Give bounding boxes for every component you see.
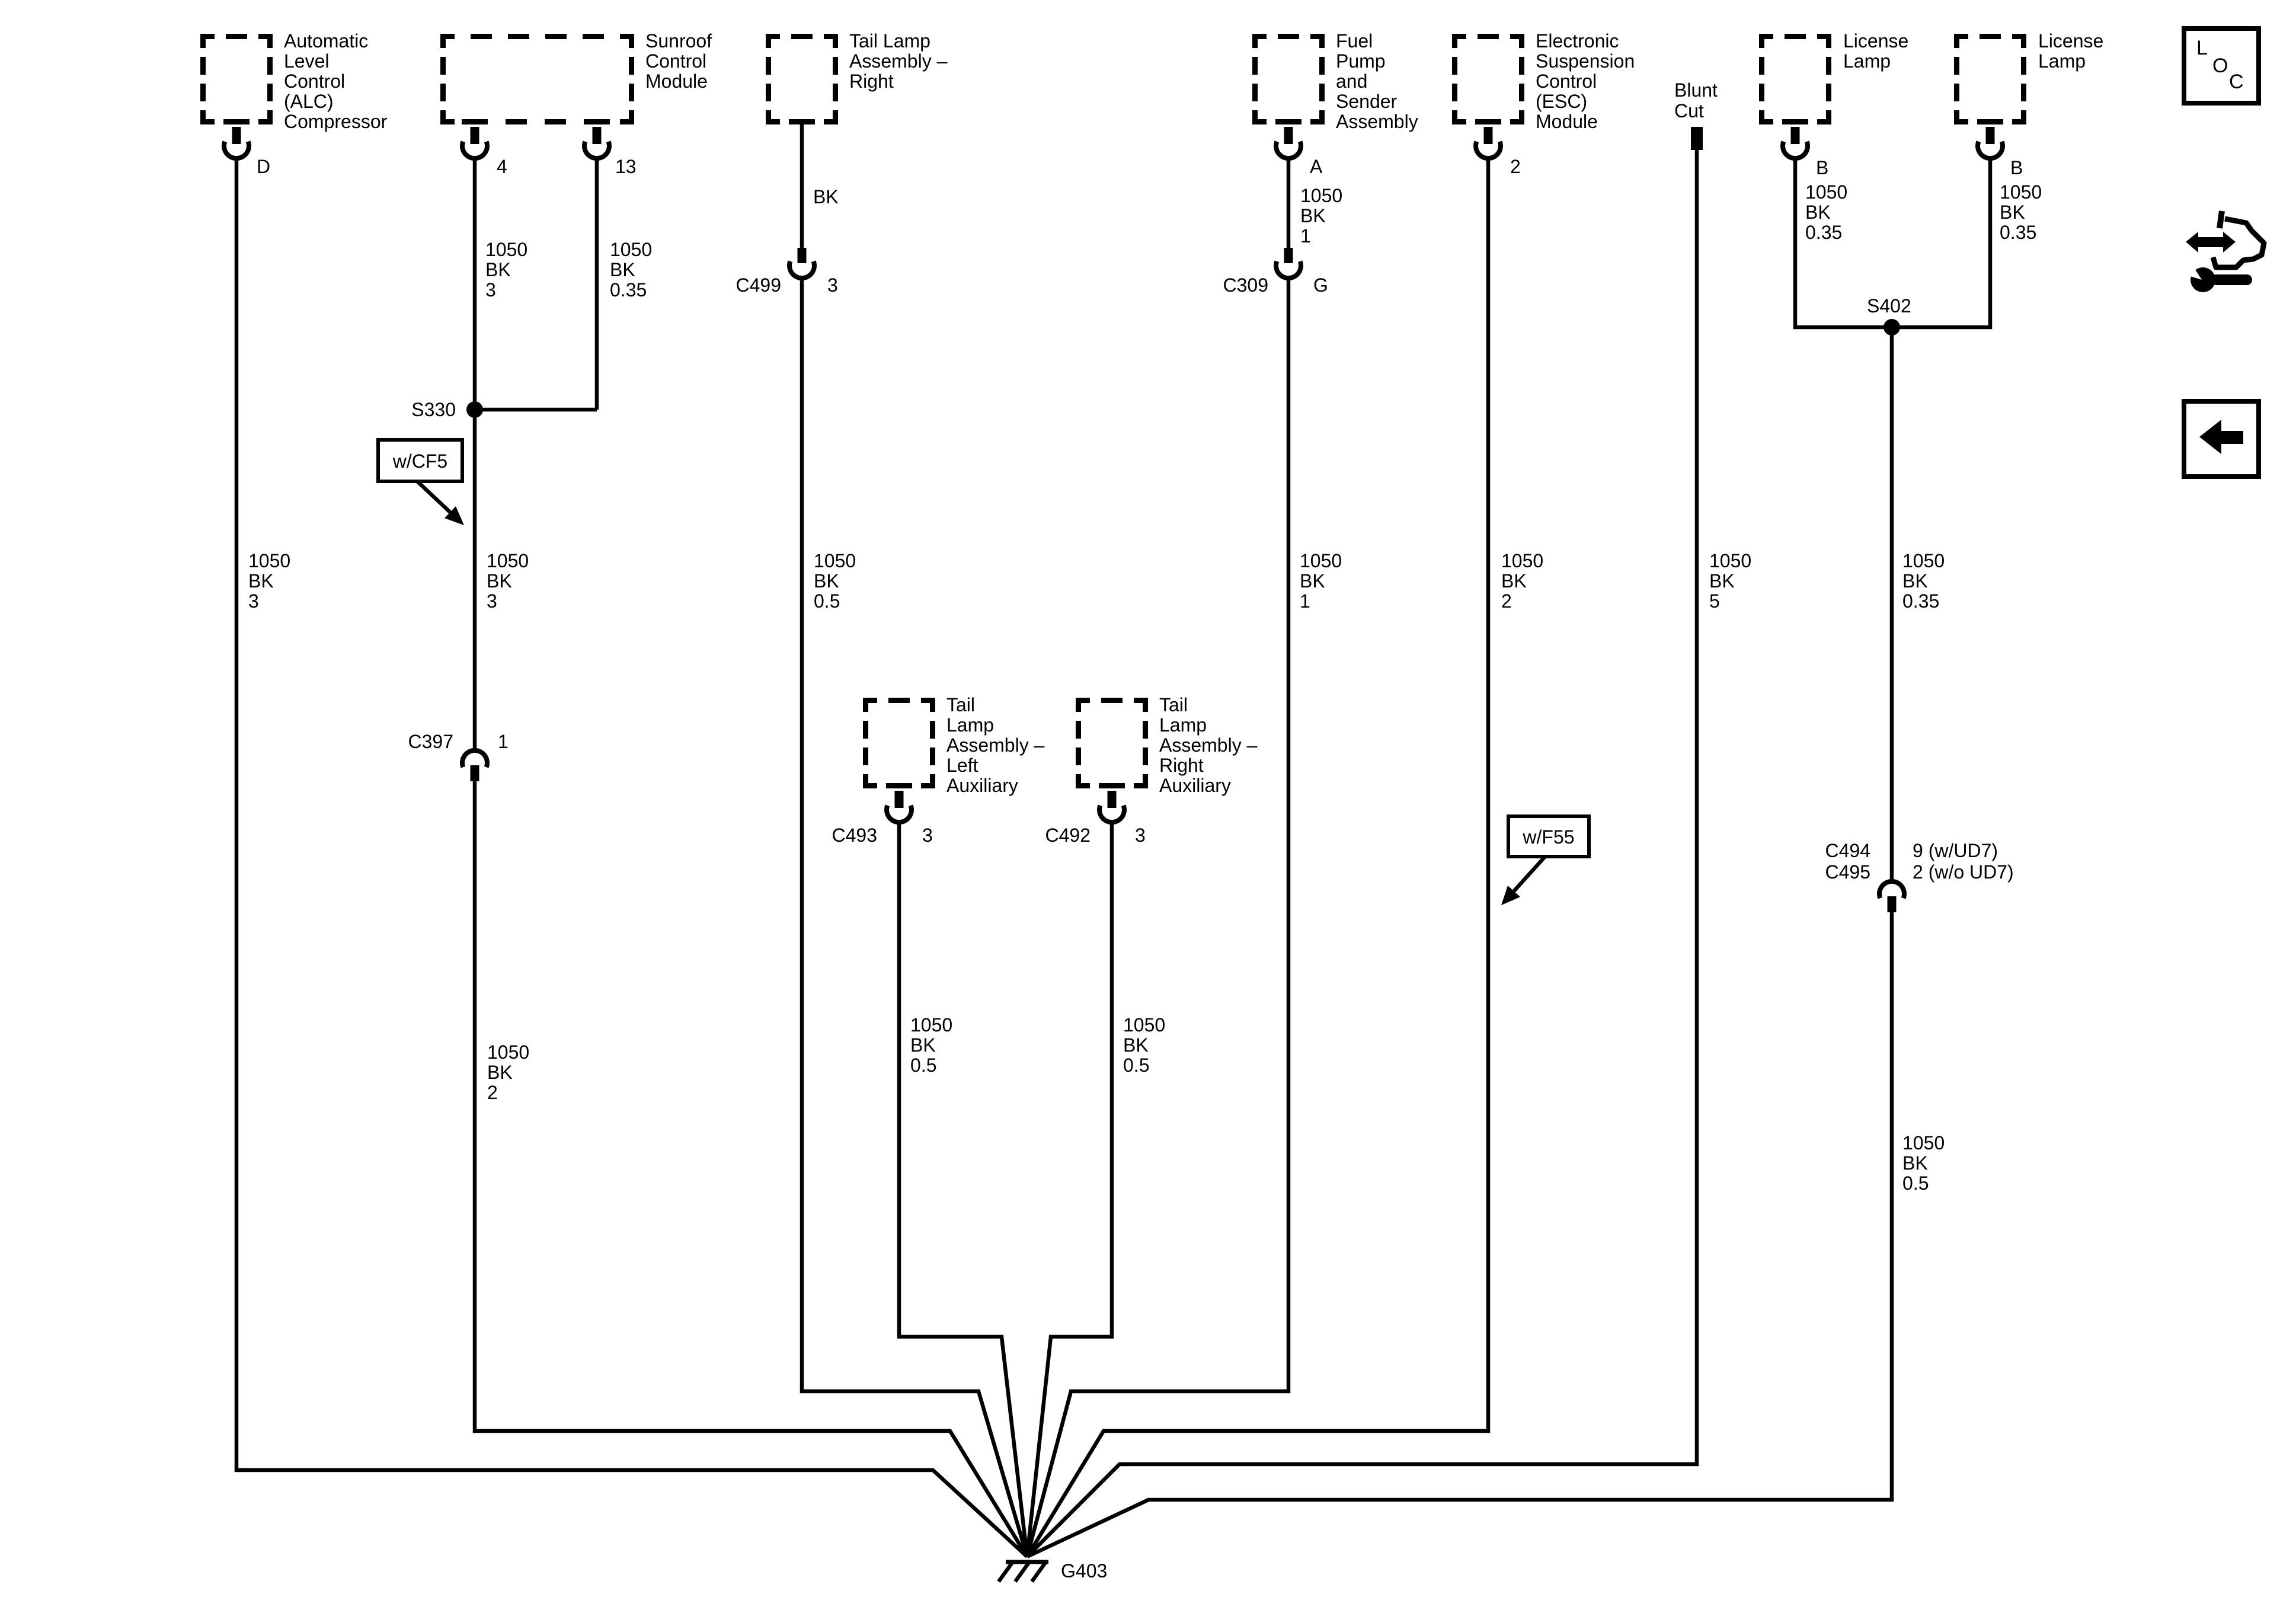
component box: Sunroof Control Module (440, 34, 634, 124)
wire: sunroof pin 13 to splice S330 (475, 160, 597, 410)
svg-text:Level: Level (284, 50, 330, 72)
wire: blunt cut lead to G403, 1050 BK 5 (1027, 150, 1697, 1557)
svg-text:1050: 1050 (610, 239, 652, 260)
label: Electronic Suspension Control (ESC) Module (1536, 30, 1635, 132)
label C492 (1045, 825, 1091, 846)
option flag box w/CF5 (378, 440, 462, 481)
wire: ESC module to G403, 1050 BK 2 (1027, 160, 1488, 1557)
wire label 1050 BK 0.5 (1902, 1132, 1945, 1194)
wire: C493 to G403, 1050 BK 0.5 (899, 824, 1027, 1557)
svg-text:Blunt: Blunt (1674, 79, 1718, 101)
component box: Tail Lamp Assembly - Right Auxiliary (1076, 698, 1148, 788)
svg-text:C397: C397 (408, 731, 454, 752)
pin label G (1313, 274, 1328, 296)
svg-text:3: 3 (827, 274, 838, 296)
svg-text:Lamp: Lamp (1159, 714, 1207, 736)
pin label 1 (498, 731, 509, 752)
svg-text:0.5: 0.5 (1123, 1055, 1149, 1076)
svg-text:C: C (2229, 71, 2244, 93)
component box: Automatic Level Control (ALC) Compressor (200, 34, 273, 124)
svg-text:(ALC): (ALC) (284, 91, 334, 112)
svg-text:Right: Right (849, 71, 894, 92)
label: Tail Lamp Assembly - Right (849, 30, 948, 92)
svg-text:3: 3 (248, 590, 259, 612)
svg-text:2 (w/o UD7): 2 (w/o UD7) (1913, 861, 2014, 883)
wire label 1050 BK 0.5 (1123, 1014, 1165, 1076)
svg-text:Fuel: Fuel (1336, 30, 1373, 52)
wire label 1050 BK 2 (1501, 550, 1543, 612)
svg-text:1050: 1050 (910, 1014, 952, 1036)
wire: left license lamp to splice S402 (1795, 160, 1892, 327)
svg-text:5: 5 (1709, 590, 1720, 612)
connector pin A of fuel pump (1276, 127, 1301, 158)
svg-text:0.35: 0.35 (1902, 590, 1939, 612)
label S402 (1867, 295, 1911, 317)
pin label B (1816, 157, 1828, 178)
svg-text:C494: C494 (1825, 840, 1871, 861)
label: Automatic Level Control (ALC) Compressor (284, 30, 388, 132)
svg-text:Control: Control (645, 50, 706, 72)
connector C493 pin 3 of left auxiliary tail lamp (887, 791, 912, 822)
svg-text:Right: Right (1159, 755, 1204, 776)
icon: back arrow box (2184, 401, 2259, 477)
arrow from w/CF5 flag to wire (417, 481, 464, 525)
svg-text:B: B (1816, 157, 1828, 178)
svg-text:BK: BK (1300, 570, 1325, 592)
svg-text:C493: C493 (832, 825, 878, 846)
wire label 1050 BK 0.35 (2000, 181, 2042, 243)
wire label 1050 BK 3 (248, 550, 290, 612)
svg-text:1050: 1050 (248, 550, 290, 571)
wire label BK (813, 186, 839, 207)
svg-text:BK: BK (1123, 1034, 1149, 1056)
svg-text:C492: C492 (1045, 825, 1091, 846)
in-line connector C397 pin 1 (462, 750, 487, 781)
arrow from w/F55 flag to wire (1501, 857, 1545, 905)
svg-text:1050: 1050 (487, 550, 529, 571)
svg-text:B: B (2010, 157, 2023, 178)
component box: Fuel Pump and Sender Assembly (1252, 34, 1325, 124)
svg-text:Control: Control (284, 71, 345, 92)
wire: C499 to G403, 1050 BK 0.5 (802, 280, 1027, 1557)
label: License Lamp (2038, 30, 2103, 72)
svg-text:BK: BK (1805, 202, 1831, 223)
svg-text:Lamp: Lamp (1843, 50, 1891, 72)
svg-text:Cut: Cut (1674, 100, 1704, 122)
svg-text:2: 2 (1510, 156, 1521, 177)
ground G403 (999, 1562, 1048, 1582)
in-line connector C494/C495 (1879, 881, 1904, 912)
svg-text:BK: BK (814, 570, 839, 592)
label C397 (408, 731, 454, 752)
pin label 3 (1135, 825, 1146, 846)
svg-text:Control: Control (1536, 71, 1597, 92)
wire label 1050 BK 0.35 (pin 13) (610, 239, 652, 301)
connector C492 pin 3 of right auxiliary tail lamp (1099, 791, 1124, 822)
wire label 1050 BK 3 (below S330) (487, 550, 529, 612)
svg-text:G: G (1313, 274, 1328, 296)
svg-text:1050: 1050 (1902, 550, 1945, 571)
label C309 (1223, 274, 1269, 296)
splice S330 (466, 401, 483, 418)
svg-text:License: License (2038, 30, 2103, 52)
svg-text:Assembly –: Assembly – (1159, 734, 1258, 756)
svg-text:1050: 1050 (1300, 550, 1342, 571)
svg-text:1050: 1050 (1501, 550, 1543, 571)
svg-text:Left: Left (946, 755, 978, 776)
connector pin D of ALC compressor (224, 127, 249, 158)
svg-text:D: D (257, 156, 270, 177)
component box: License Lamp (right) (1954, 34, 2026, 124)
svg-text:2: 2 (487, 1082, 498, 1103)
pin label 3 (827, 274, 838, 296)
svg-text:Pump: Pump (1336, 50, 1386, 72)
svg-text:Automatic: Automatic (284, 30, 368, 52)
svg-text:L: L (2196, 37, 2208, 59)
svg-text:1050: 1050 (1123, 1014, 1165, 1036)
option flag box w/F55 (1508, 816, 1589, 857)
svg-text:0.5: 0.5 (1902, 1173, 1929, 1194)
wire: ALC ground wire 1050 BK 3 to G403 (236, 160, 1027, 1557)
connector pin 13 of sunroof control module (584, 127, 609, 158)
svg-text:BK: BK (1501, 570, 1527, 592)
wire: right license lamp to splice S402 (1892, 160, 1990, 327)
icon: LOC reference box (2184, 28, 2259, 103)
wire label 1050 BK 1 (above C309) (1300, 185, 1342, 247)
svg-text:4: 4 (497, 156, 507, 177)
svg-text:Sender: Sender (1336, 91, 1398, 112)
svg-text:1050: 1050 (1709, 550, 1751, 571)
connector pin B of left license lamp (1783, 127, 1808, 158)
component box: Tail Lamp Assembly - Left Auxiliary (863, 698, 935, 788)
svg-text:1050: 1050 (1300, 185, 1342, 206)
pin label 13 (615, 156, 637, 177)
pin label 3 (922, 825, 933, 846)
svg-text:Assembly –: Assembly – (849, 50, 948, 72)
svg-text:Assembly –: Assembly – (946, 734, 1045, 756)
label C499 (736, 274, 782, 296)
svg-text:BK: BK (248, 570, 274, 592)
svg-text:0.5: 0.5 (910, 1055, 936, 1076)
svg-text:BK: BK (1902, 1152, 1928, 1174)
svg-text:S330: S330 (411, 399, 456, 420)
svg-text:A: A (1310, 156, 1323, 177)
svg-text:Electronic: Electronic (1536, 30, 1619, 52)
wire: fuel pump pin A to connector C309 (1287, 160, 1291, 249)
label: License Lamp (1843, 30, 1908, 72)
svg-text:G403: G403 (1061, 1560, 1107, 1582)
svg-text:BK: BK (487, 570, 512, 592)
in-line connector C499 pin 3 (789, 248, 814, 278)
svg-text:Sunroof: Sunroof (645, 30, 712, 52)
svg-text:BK: BK (1902, 570, 1928, 592)
svg-text:3: 3 (485, 279, 496, 301)
svg-text:C495: C495 (1825, 861, 1871, 883)
svg-text:BK: BK (610, 259, 635, 280)
svg-text:0.35: 0.35 (2000, 222, 2036, 243)
svg-text:0.5: 0.5 (814, 590, 840, 612)
label G403 (1061, 1560, 1107, 1582)
svg-text:(ESC): (ESC) (1536, 91, 1587, 112)
pin label 9 (w/UD7) / 2 (w/o UD7) (1913, 840, 2014, 883)
pin label 4 (497, 156, 507, 177)
wire: C309 to G403, 1050 BK 1 (1027, 280, 1288, 1557)
svg-text:BK: BK (813, 186, 839, 207)
svg-text:BK: BK (487, 1062, 513, 1083)
pin label 2 (1510, 156, 1521, 177)
label: Tail Lamp Assembly - Right Auxiliary (1159, 694, 1258, 796)
svg-text:0.35: 0.35 (610, 279, 647, 301)
svg-text:2: 2 (1501, 590, 1512, 612)
wire: C494/C495 to G403, 1050 BK 0.5 (1027, 912, 1892, 1557)
wire label 1050 BK 5 (1709, 550, 1751, 612)
svg-text:Lamp: Lamp (946, 714, 994, 736)
svg-text:3: 3 (922, 825, 933, 846)
svg-text:1050: 1050 (814, 550, 856, 571)
component box: Electronic Suspension Control (ESC) Module (1452, 34, 1524, 124)
wire: C397 to G403, 1050 BK 2 (475, 781, 1027, 1557)
wire: tail lamp right to connector C499, BK (800, 122, 804, 249)
connector pin B of right license lamp (1978, 127, 2003, 158)
svg-text:BK: BK (910, 1034, 936, 1056)
svg-text:BK: BK (2000, 202, 2025, 223)
svg-text:3: 3 (487, 590, 497, 612)
wire label 1050 BK 0.35 (1902, 550, 1945, 612)
in-line connector C309 pin G (1276, 248, 1301, 278)
svg-text:and: and (1336, 71, 1367, 92)
svg-text:License: License (1843, 30, 1908, 52)
label: Sunroof Control Module (645, 30, 712, 92)
svg-text:w/F55: w/F55 (1522, 826, 1574, 848)
svg-text:BK: BK (1300, 205, 1326, 226)
svg-text:Module: Module (1536, 111, 1598, 132)
svg-text:1050: 1050 (2000, 181, 2042, 203)
svg-text:Auxiliary: Auxiliary (1159, 775, 1231, 796)
svg-text:Tail: Tail (1159, 694, 1188, 715)
svg-text:Auxiliary: Auxiliary (946, 775, 1018, 796)
svg-text:1050: 1050 (487, 1042, 529, 1063)
svg-text:Tail: Tail (946, 694, 975, 715)
svg-text:Tail Lamp: Tail Lamp (849, 30, 930, 52)
component box: Tail Lamp Assembly - Right (766, 34, 838, 124)
svg-text:Compressor: Compressor (284, 111, 388, 132)
wire label 1050 BK 0.35 (1805, 181, 1847, 243)
label: Blunt Cut (1674, 79, 1718, 122)
label S330 (411, 399, 456, 420)
svg-text:1: 1 (1300, 225, 1311, 247)
svg-text:C499: C499 (736, 274, 782, 296)
blunt cut terminal (1691, 127, 1703, 150)
svg-text:Suspension: Suspension (1536, 50, 1635, 72)
wire label 1050 BK 1 (1300, 550, 1342, 612)
wire: S402 down to connector C494/C495, 1050 BK 0.35 (1890, 327, 1894, 880)
svg-text:BK: BK (1709, 570, 1735, 592)
label C493 (832, 825, 878, 846)
icon: connector end view / repair symbol (vehicle outline, double arrow, wrench) (2186, 211, 2264, 292)
svg-text:1: 1 (1300, 590, 1310, 612)
svg-text:1: 1 (498, 731, 509, 752)
wire: C492 to G403, 1050 BK 0.5 (1027, 824, 1112, 1557)
svg-text:0.35: 0.35 (1805, 222, 1842, 243)
label C494 C495 (1825, 840, 1871, 883)
svg-text:Module: Module (645, 71, 708, 92)
svg-text:w/CF5: w/CF5 (392, 451, 447, 472)
svg-text:Lamp: Lamp (2038, 50, 2086, 72)
svg-text:1050: 1050 (485, 239, 527, 260)
component box: License Lamp (left) (1759, 34, 1831, 124)
wire label 1050 BK 2 (487, 1042, 529, 1103)
wire label 1050 BK 0.5 (910, 1014, 952, 1076)
svg-text:O: O (2212, 55, 2228, 77)
svg-text:S402: S402 (1867, 295, 1911, 317)
svg-text:9 (w/UD7): 9 (w/UD7) (1913, 840, 1998, 861)
pin label D (257, 156, 270, 177)
svg-text:3: 3 (1135, 825, 1146, 846)
connector pin 4 of sunroof control module (462, 127, 487, 158)
wire: sunroof pin 4 down through S330 to connector C397 (473, 160, 477, 749)
svg-text:1050: 1050 (1902, 1132, 1945, 1154)
splice S402 (1884, 319, 1900, 336)
label: Fuel Pump and Sender Assembly (1336, 30, 1418, 132)
pin label B (2010, 157, 2023, 178)
svg-text:BK: BK (485, 259, 511, 280)
svg-text:1050: 1050 (1805, 181, 1847, 203)
connector pin 2 of ESC module (1476, 127, 1501, 158)
svg-text:13: 13 (615, 156, 637, 177)
svg-text:C309: C309 (1223, 274, 1269, 296)
label: Tail Lamp Assembly - Left Auxiliary (946, 694, 1045, 796)
pin label A (1310, 156, 1323, 177)
wire label 1050 BK 3 (pin 4) (485, 239, 527, 301)
svg-text:Assembly: Assembly (1336, 111, 1418, 132)
wire label 1050 BK 0.5 (814, 550, 856, 612)
